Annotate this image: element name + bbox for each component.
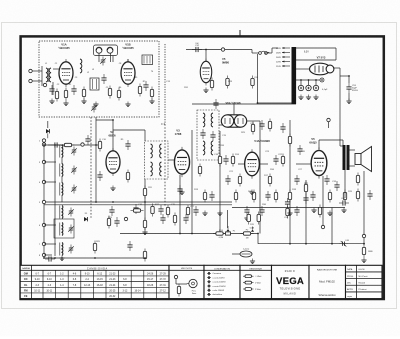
electrolytic C50 — [298, 85, 303, 90]
wire: B+ feed — [339, 68, 341, 146]
wire: supply riser — [289, 120, 291, 244]
T2 coil a — [151, 144, 153, 158]
pilot lamp — [320, 78, 324, 82]
junction — [300, 79, 302, 81]
wire ant — [32, 70, 42, 72]
terminal p1 — [321, 225, 324, 228]
trimmer C6 — [100, 57, 106, 66]
junction — [205, 49, 207, 51]
dashed linkage drop — [164, 124, 166, 207]
resistor m23 — [268, 174, 271, 187]
rectifier tube V7 — [310, 63, 334, 75]
wire ot down — [344, 170, 346, 198]
wire: B+ bus — [120, 233, 258, 235]
terminal p2 — [362, 234, 365, 237]
table col lines — [42, 270, 44, 298]
wire: AVC bus lower — [44, 204, 232, 206]
trimmer L3 — [71, 147, 77, 156]
legend cap 2 — [207, 281, 211, 283]
capacitor m20 — [244, 206, 249, 216]
junction — [112, 119, 114, 121]
T1 coil a — [203, 113, 205, 127]
resistor m7 — [143, 218, 146, 231]
capacitor m1 — [97, 171, 102, 181]
resistor m39 — [288, 134, 291, 147]
ground — [244, 216, 249, 221]
ground c52 — [313, 95, 318, 100]
wire: v3 grid link — [168, 159, 174, 161]
note pictorial wire — [175, 279, 177, 284]
wire: cathode riser — [322, 176, 324, 225]
ground c2 — [49, 99, 54, 104]
switch terminal f — [42, 242, 45, 245]
junction — [179, 233, 181, 235]
junction — [227, 233, 229, 235]
tuning gang frame — [94, 45, 118, 56]
coupling capacitor C9 — [143, 81, 148, 91]
wire: B+ bus jog — [257, 234, 259, 244]
coil L6 — [60, 206, 63, 219]
capacitor C30 — [45, 256, 55, 261]
wire p2 — [363, 238, 365, 244]
junction — [219, 233, 221, 235]
wire: B+ bus right — [258, 243, 364, 245]
bypass capacitor C2 — [49, 85, 54, 95]
legend res 1 — [243, 282, 245, 284]
switch terminal a — [42, 139, 45, 142]
note box — [169, 265, 204, 298]
trimmer L8 — [68, 245, 74, 254]
junction — [144, 233, 146, 235]
wire: v4 grid — [238, 163, 244, 165]
resistor m19 — [238, 174, 241, 187]
resistor m0 — [98, 139, 101, 152]
resistor m33 — [251, 122, 254, 135]
switch arm diode — [46, 129, 50, 138]
ground c50 — [298, 95, 303, 100]
resistor m38 — [251, 76, 254, 89]
resistor R27 — [362, 245, 365, 258]
wire gang drops — [98, 53, 100, 62]
wire: v6 out link — [246, 120, 260, 122]
junction — [191, 233, 193, 235]
ground c45 — [341, 208, 346, 213]
terminal t26 — [124, 217, 127, 220]
table row lines — [20, 275, 169, 277]
coupling capacitor C4 — [71, 85, 76, 95]
coil L5 — [60, 183, 63, 196]
note pictorial resistor — [177, 284, 180, 297]
tuning capacitor CV2 — [107, 47, 113, 53]
junction — [305, 243, 307, 245]
IF can T1 dashed — [197, 110, 219, 160]
terminal bd3 — [81, 143, 84, 146]
trimmer L5 — [71, 185, 77, 194]
ground mid — [93, 102, 98, 107]
wire: v5 plate top — [318, 140, 320, 149]
condensatori legend — [204, 265, 240, 298]
wire: gang riser — [95, 117, 97, 202]
ground — [327, 211, 332, 216]
band switch table — [20, 265, 169, 298]
tube V5 output — [311, 147, 327, 178]
wire coils — [44, 161, 56, 163]
switch terminal b — [42, 160, 45, 163]
tube V4A — [245, 149, 260, 178]
wire: audio bus — [232, 207, 345, 209]
wire: heater bus — [192, 103, 296, 105]
wire fuse — [225, 49, 252, 51]
wire: top det drop — [205, 50, 207, 62]
resistor m21 — [252, 190, 255, 203]
ground — [249, 190, 254, 195]
capacitor m52 — [310, 191, 315, 201]
capacitor m31 — [334, 181, 339, 191]
resistor m53 — [318, 205, 321, 218]
dashed gang linkage right — [161, 44, 166, 124]
info block — [346, 265, 383, 298]
wire: out riser — [305, 180, 307, 244]
junction — [61, 257, 63, 259]
resistor R30 — [210, 78, 213, 91]
capacitor m57 — [285, 198, 290, 208]
tube V6A double — [221, 115, 246, 127]
junction — [54, 144, 56, 146]
terminal out — [327, 118, 330, 121]
legend cap 3 — [207, 285, 211, 287]
resistor m50 — [274, 190, 277, 203]
T2 coil b — [160, 144, 162, 158]
switch terminal d — [42, 200, 45, 203]
resistor m32 — [343, 190, 346, 203]
note pictorial terminal — [174, 275, 177, 278]
ground am — [59, 256, 64, 261]
FM tuner dashed enclosure — [39, 41, 159, 117]
junction — [95, 144, 97, 146]
dashed tuning gang link — [90, 117, 92, 219]
resistor m26 — [288, 190, 291, 203]
junction — [348, 75, 350, 77]
junction — [144, 201, 146, 203]
ground — [287, 211, 292, 216]
capacitor m11 — [177, 185, 182, 195]
resistor m55 — [143, 249, 146, 262]
T1 coil c — [203, 141, 205, 155]
capacitor m34 — [259, 120, 264, 130]
diode D1 — [84, 217, 88, 221]
frame top tick — [239, 30, 241, 37]
resistor m16 — [218, 154, 221, 167]
resistor m46 — [198, 164, 201, 177]
resistor m25 — [281, 154, 284, 167]
ground v1b — [125, 102, 130, 107]
junction — [257, 233, 259, 235]
switch terminal e — [42, 223, 45, 226]
capacitor C31 — [114, 217, 119, 227]
capacitor m3 — [125, 140, 130, 150]
IF can T2 dashed — [145, 141, 169, 179]
variable capacitor C46 — [339, 241, 348, 247]
capacitor m47 — [225, 175, 230, 185]
capacitor C53 — [346, 83, 351, 93]
capacitor C7 — [101, 74, 106, 84]
T1 cap b — [210, 131, 215, 141]
wire: speaker riser — [363, 171, 365, 236]
junction — [112, 201, 114, 203]
tube V2 — [106, 148, 120, 176]
capacitor m51 — [294, 206, 299, 216]
T1 coil b — [211, 113, 213, 127]
junction — [257, 102, 259, 104]
antenna terminal 2 — [29, 79, 32, 82]
resistor R16 — [257, 212, 260, 225]
ground c51 — [306, 95, 311, 100]
output transformer T5 core — [343, 145, 346, 170]
legend cap 5 — [207, 293, 211, 295]
trimmer L6 — [68, 208, 74, 217]
oscillator coil box — [90, 78, 99, 90]
plate resistor R7 — [138, 84, 141, 97]
ground c53 — [346, 99, 351, 104]
resistenze legend — [240, 265, 272, 298]
capacitor C45 — [339, 200, 349, 205]
ground v5 — [203, 88, 208, 93]
resistor m18 — [231, 154, 234, 167]
capacitor m36 — [213, 99, 218, 109]
junction — [308, 79, 310, 81]
info row line — [346, 291, 383, 293]
resistor R3 — [82, 87, 85, 100]
ground r8 — [149, 99, 154, 104]
switch terminal a2 — [42, 143, 45, 146]
resistor m12 — [186, 205, 189, 218]
capacitor m29 — [303, 194, 308, 204]
table header row — [20, 269, 169, 271]
capacitor m27 — [294, 175, 299, 185]
resistor m30 — [328, 190, 331, 203]
resistor R15 — [247, 212, 250, 225]
T1 cap a — [200, 129, 205, 139]
info row line — [346, 278, 383, 280]
capacitor m24 — [273, 155, 278, 165]
electrolytic C51 — [306, 85, 311, 90]
wire out term — [328, 122, 330, 128]
trimmer L7 — [68, 225, 74, 234]
model block — [309, 265, 346, 298]
wire: v5 grid — [296, 163, 311, 165]
ground — [142, 230, 147, 235]
wire: screen riser — [219, 131, 221, 234]
fuse F1 — [259, 51, 270, 54]
wire: det link — [219, 124, 226, 126]
coil L8 — [60, 243, 63, 256]
transformer primary core — [292, 47, 297, 104]
capacitor bd1 — [51, 142, 61, 147]
capacitor m42 — [109, 206, 114, 216]
ground r3 — [81, 99, 86, 104]
capacitor m17 — [223, 155, 228, 165]
legend res 2 — [243, 288, 245, 290]
capacitor m49 — [265, 191, 270, 201]
junction — [144, 257, 146, 259]
schematic border frame — [21, 36, 384, 299]
capacitor m56 — [127, 241, 132, 251]
tuning capacitor CV1 — [96, 47, 102, 53]
ground — [179, 190, 184, 195]
volume control cluster — [213, 226, 231, 235]
junction — [363, 243, 365, 245]
resistor R8 — [150, 87, 153, 100]
wire band run — [48, 144, 100, 146]
resistor R26 — [107, 216, 110, 229]
grid resistor R6 — [117, 88, 120, 101]
legend cap 0 — [207, 272, 211, 274]
capacitor m13 — [193, 206, 198, 216]
scan noise film — [0, 0, 1, 1]
wire: top coupling run — [186, 49, 223, 51]
capacitor m43 — [160, 214, 165, 224]
wire coil bus — [54, 145, 56, 256]
resistor m10 — [166, 205, 169, 218]
junction — [289, 243, 291, 245]
capacitor m22 — [259, 206, 264, 216]
wire: if riser — [179, 175, 181, 234]
capacitor m9 — [158, 205, 163, 215]
ground bus — [311, 208, 316, 213]
resistor R21 — [356, 189, 359, 202]
tone capacitor — [240, 251, 252, 257]
resistor m4 — [143, 186, 146, 199]
ground tone — [250, 259, 255, 264]
wire: pot feed — [227, 210, 229, 228]
resistor R20 — [356, 173, 359, 186]
resistor m2 — [126, 170, 129, 183]
electrolytic C52 — [313, 85, 318, 90]
junction — [315, 79, 317, 81]
cathode resistor R1 — [55, 89, 58, 102]
junction — [43, 257, 45, 259]
resistor m35 — [268, 119, 271, 132]
maker block VEGA — [272, 265, 310, 298]
capacitor m54 — [324, 175, 329, 185]
resistor m44 — [173, 213, 176, 226]
wire: switch stack — [43, 140, 45, 258]
speaker — [355, 147, 372, 172]
junction — [43, 144, 45, 146]
wire ecaps — [296, 79, 320, 81]
mains taps — [282, 47, 290, 49]
wire: ps return — [257, 54, 259, 103]
resistor m58 — [286, 206, 289, 219]
heater loop wire — [296, 47, 336, 49]
capacitor m41 — [297, 145, 302, 155]
ground v1a — [63, 101, 68, 106]
wire: v6a riser — [233, 104, 235, 114]
wire: audio riser — [259, 131, 261, 234]
trimmer L4 — [71, 166, 77, 175]
capacitor C40 — [367, 190, 372, 200]
wire: t1 link — [112, 120, 114, 151]
ground — [202, 211, 207, 216]
resistor bd2 — [62, 143, 75, 146]
wire l1-v1a — [53, 68, 59, 70]
trimmer C11 — [91, 104, 97, 113]
wire rect-in — [296, 68, 310, 70]
switch terminal g — [42, 253, 45, 256]
resistor m48 — [234, 190, 237, 203]
resistor m6 — [131, 209, 144, 212]
tube V1A — [59, 59, 73, 87]
wire: fb riser — [331, 208, 333, 244]
wire: v2 plate link — [113, 129, 145, 131]
note pictorial plug — [187, 279, 197, 287]
tube V3 — [174, 147, 189, 177]
ground — [110, 186, 115, 191]
capacitor bd4 — [85, 135, 90, 145]
switch terminal c — [42, 180, 45, 183]
antenna terminal 1 — [29, 69, 32, 72]
wire v1b top — [127, 59, 129, 62]
grid resistor R2 — [64, 88, 67, 101]
T1 coil d — [211, 141, 213, 155]
legend res 0 — [243, 275, 245, 277]
wire: grid link — [96, 119, 113, 121]
osc box — [54, 219, 74, 238]
junction — [54, 257, 56, 259]
capacitor m40 — [280, 123, 285, 133]
terminal top — [221, 48, 224, 51]
capacitor m5 — [133, 204, 138, 214]
junction — [94, 257, 96, 259]
wire c53 — [348, 76, 350, 83]
legend cap 1 — [207, 277, 211, 279]
capacitor C12 top — [192, 47, 202, 52]
terminal E — [43, 83, 46, 86]
wire: v4 plate — [260, 163, 268, 165]
resistor R5 — [108, 86, 111, 99]
info row line — [346, 284, 383, 286]
volume pot P1 — [241, 227, 255, 236]
plate choke L2 — [80, 59, 82, 73]
coil L4 — [60, 164, 63, 177]
T2 coil d — [160, 162, 162, 176]
resistor m28 — [304, 182, 307, 195]
antenna transformer L1 — [46, 68, 51, 82]
wire: rect out — [333, 67, 340, 69]
legend cap 4 — [207, 289, 211, 291]
wire: tone run — [232, 253, 241, 255]
capacitor m45 — [183, 214, 188, 224]
switch arm wire — [47, 121, 49, 128]
ground — [217, 211, 222, 216]
resistor m8 — [151, 204, 154, 217]
coil L3 — [60, 145, 63, 158]
ground r27 — [361, 258, 366, 263]
wire: det riser — [144, 179, 146, 230]
wire ot-spk — [350, 149, 356, 151]
resistor R25 — [93, 241, 96, 254]
wire: AVC bus upper — [44, 201, 232, 203]
wire am1 — [44, 224, 56, 226]
T2 coil c — [151, 162, 153, 176]
resistor m14 — [203, 190, 206, 203]
resistor m37 — [226, 76, 229, 89]
tube V1B — [121, 59, 135, 87]
junction — [331, 243, 333, 245]
wire: plate riser — [191, 130, 193, 234]
capacitor m15 — [209, 191, 214, 201]
junction — [95, 201, 97, 203]
